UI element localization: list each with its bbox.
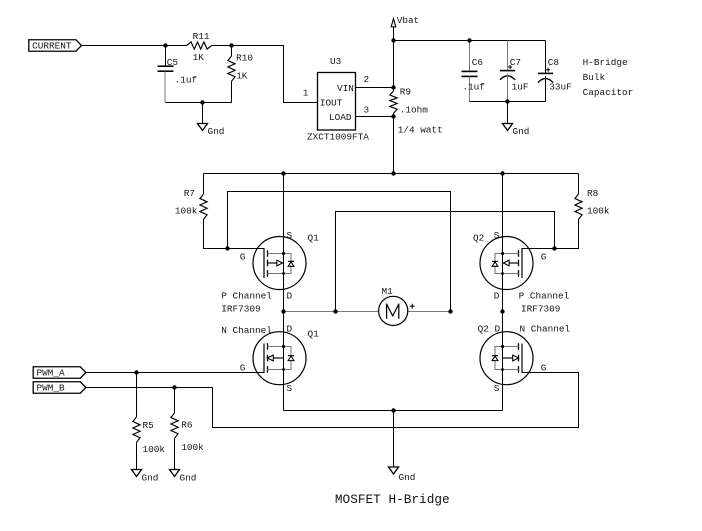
svg-text:R6: R6 bbox=[181, 419, 193, 430]
svg-text:IOUT: IOUT bbox=[320, 98, 343, 109]
svg-text:D: D bbox=[287, 291, 293, 302]
svg-text:Vbat: Vbat bbox=[397, 15, 420, 26]
svg-text:VIN: VIN bbox=[337, 83, 354, 94]
svg-text:S: S bbox=[287, 230, 293, 241]
svg-text:Capacitor: Capacitor bbox=[583, 87, 634, 98]
svg-text:1K: 1K bbox=[236, 70, 248, 81]
svg-text:D: D bbox=[494, 291, 500, 302]
svg-text:Gnd: Gnd bbox=[399, 472, 416, 483]
svg-text:U3: U3 bbox=[330, 56, 342, 67]
svg-text:N Channel: N Channel bbox=[221, 325, 272, 336]
svg-text:R10: R10 bbox=[236, 53, 253, 64]
svg-text:R11: R11 bbox=[193, 31, 210, 42]
svg-text:Gnd: Gnd bbox=[180, 473, 197, 484]
svg-text:D: D bbox=[287, 323, 293, 334]
svg-text:H-Bridge: H-Bridge bbox=[583, 57, 628, 68]
svg-text:2: 2 bbox=[364, 74, 370, 85]
svg-text:100k: 100k bbox=[143, 444, 166, 455]
svg-text:G: G bbox=[240, 252, 246, 263]
svg-text:G: G bbox=[541, 252, 547, 263]
svg-text:1: 1 bbox=[303, 88, 309, 99]
svg-text:G: G bbox=[240, 362, 246, 373]
svg-text:33uF: 33uF bbox=[549, 82, 572, 93]
svg-text:CURRENT: CURRENT bbox=[32, 41, 72, 52]
svg-text:IRF7309: IRF7309 bbox=[221, 303, 260, 314]
svg-text:R5: R5 bbox=[143, 420, 155, 431]
svg-text:PWM_B: PWM_B bbox=[37, 383, 66, 394]
svg-text:C8: C8 bbox=[548, 57, 560, 68]
svg-text:S: S bbox=[494, 383, 500, 394]
svg-text:Gnd: Gnd bbox=[513, 126, 530, 137]
svg-text:Q1: Q1 bbox=[308, 232, 320, 243]
svg-text:N Channel: N Channel bbox=[520, 323, 571, 334]
svg-text:M1: M1 bbox=[382, 286, 394, 297]
svg-text:Q2: Q2 bbox=[473, 232, 484, 243]
svg-text:R7: R7 bbox=[184, 188, 195, 199]
svg-text:Q1: Q1 bbox=[308, 329, 320, 340]
svg-text:.1uf: .1uf bbox=[462, 82, 485, 93]
svg-text:.1ohm: .1ohm bbox=[400, 105, 429, 116]
svg-text:1uF: 1uF bbox=[512, 82, 529, 93]
svg-text:C6: C6 bbox=[472, 57, 484, 68]
svg-text:Gnd: Gnd bbox=[208, 126, 225, 137]
svg-text:Q2 D: Q2 D bbox=[478, 323, 501, 334]
svg-text:S: S bbox=[494, 230, 500, 241]
svg-text:C5: C5 bbox=[167, 57, 179, 68]
svg-text:100k: 100k bbox=[587, 206, 610, 217]
svg-text:S: S bbox=[287, 383, 293, 394]
svg-text:IRF7309: IRF7309 bbox=[521, 303, 560, 314]
svg-text:PWM_A: PWM_A bbox=[37, 368, 66, 379]
svg-text:1/4 watt: 1/4 watt bbox=[398, 124, 443, 135]
svg-text:100k: 100k bbox=[181, 442, 204, 453]
svg-text:1K: 1K bbox=[193, 52, 205, 63]
svg-text:MOSFET H-Bridge: MOSFET H-Bridge bbox=[335, 492, 450, 507]
svg-text:LOAD: LOAD bbox=[329, 112, 352, 123]
svg-text:100k: 100k bbox=[175, 206, 198, 217]
svg-text:G: G bbox=[541, 362, 547, 373]
svg-text:R8: R8 bbox=[587, 188, 599, 199]
svg-text:P Channel: P Channel bbox=[519, 291, 570, 302]
svg-text:ZXCT1009FTA: ZXCT1009FTA bbox=[307, 132, 369, 143]
svg-text:R9: R9 bbox=[400, 87, 411, 98]
svg-text:P Channel: P Channel bbox=[221, 291, 272, 302]
svg-text:Gnd: Gnd bbox=[142, 473, 159, 484]
svg-text:3: 3 bbox=[364, 104, 370, 115]
svg-text:Bulk: Bulk bbox=[583, 72, 606, 83]
svg-text:C7: C7 bbox=[510, 57, 521, 68]
svg-text:.1uf: .1uf bbox=[175, 74, 198, 85]
